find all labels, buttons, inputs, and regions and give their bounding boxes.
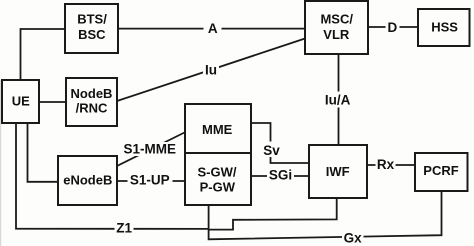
wire Gx: S-GW down across to PCRF bbox=[209, 191, 442, 239]
svg-text:VLR: VLR bbox=[323, 27, 350, 42]
wire UE top to BTS/BSC bbox=[21, 29, 66, 80]
label Z1 bbox=[115, 221, 134, 235]
svg-text:SGi: SGi bbox=[269, 168, 292, 183]
wire S1-MME: eNodeB to MME diagonal bbox=[117, 133, 185, 167]
label Rx bbox=[376, 157, 396, 172]
svg-text:MME: MME bbox=[202, 122, 233, 137]
box PCRF bbox=[415, 153, 468, 191]
label A bbox=[204, 22, 222, 35]
label Iu bbox=[203, 64, 219, 77]
wire SGi: S-GW to IWF bbox=[251, 175, 309, 177]
box S-GW/P-GW bbox=[185, 153, 251, 205]
box IWF bbox=[309, 145, 367, 198]
svg-text:IWF: IWF bbox=[326, 164, 350, 179]
wire A: BTS/BSC to MSC/VLR bbox=[118, 28, 305, 30]
box MSC/VLR bbox=[305, 1, 368, 54]
box MME bbox=[185, 104, 251, 153]
wire D: MSC/VLR to HSS bbox=[368, 26, 418, 28]
box eNodeB bbox=[58, 156, 117, 205]
svg-text:MSC/: MSC/ bbox=[320, 12, 353, 27]
wire UE to NodeB/RNC bbox=[39, 101, 66, 103]
svg-text:S1-UP: S1-UP bbox=[130, 172, 170, 187]
label S1-UP bbox=[128, 173, 173, 187]
wire UE to eNodeB bbox=[28, 123, 59, 182]
svg-text:NodeB: NodeB bbox=[71, 86, 113, 101]
wire Iu/A: MSC/VLR to IWF bbox=[338, 54, 340, 145]
wire Iu: NodeB/RNC to MSC/VLR diagonal bbox=[117, 39, 305, 102]
label S1-MME bbox=[121, 142, 180, 156]
wire Z1 right: jog to IWF bottom bbox=[209, 199, 337, 230]
wire Rx: IWF to PCRF bbox=[367, 164, 414, 166]
svg-text:UE: UE bbox=[12, 94, 30, 109]
wire Sv: MME to IWF bbox=[251, 123, 309, 163]
label Iu/A bbox=[324, 92, 352, 108]
label SGi bbox=[267, 169, 294, 184]
svg-text:Iu/A: Iu/A bbox=[325, 92, 351, 107]
label Gx bbox=[342, 231, 364, 245]
label Sv bbox=[262, 142, 282, 158]
svg-text:eNodeB: eNodeB bbox=[63, 173, 112, 188]
svg-text:P-GW: P-GW bbox=[200, 179, 236, 194]
box BTS/BSC bbox=[65, 4, 118, 53]
svg-text:A: A bbox=[208, 21, 218, 36]
svg-text:Rx: Rx bbox=[377, 157, 395, 172]
svg-text:PCRF: PCRF bbox=[423, 163, 458, 178]
wire Z1 left: UE down and across bbox=[16, 123, 209, 229]
svg-text:BTS/: BTS/ bbox=[77, 12, 107, 27]
svg-text:Z1: Z1 bbox=[116, 220, 132, 235]
svg-text:D: D bbox=[388, 20, 398, 35]
svg-text:HSS: HSS bbox=[431, 20, 458, 35]
box UE bbox=[2, 80, 39, 123]
svg-text:/RNC: /RNC bbox=[76, 101, 108, 116]
label D bbox=[386, 21, 400, 34]
svg-text:S1-MME: S1-MME bbox=[124, 141, 177, 156]
box NodeB/RNC bbox=[66, 78, 117, 126]
scan edge streak left bbox=[0, 80, 1, 246]
wire S1-UP: eNodeB to S-GW bbox=[117, 180, 185, 182]
svg-text:Gx: Gx bbox=[344, 231, 363, 246]
svg-text:Sv: Sv bbox=[263, 143, 280, 158]
svg-text:S-GW/: S-GW/ bbox=[198, 165, 237, 180]
box HSS bbox=[418, 9, 470, 46]
svg-text:Iu: Iu bbox=[205, 62, 217, 77]
svg-text:BSC: BSC bbox=[78, 27, 106, 42]
